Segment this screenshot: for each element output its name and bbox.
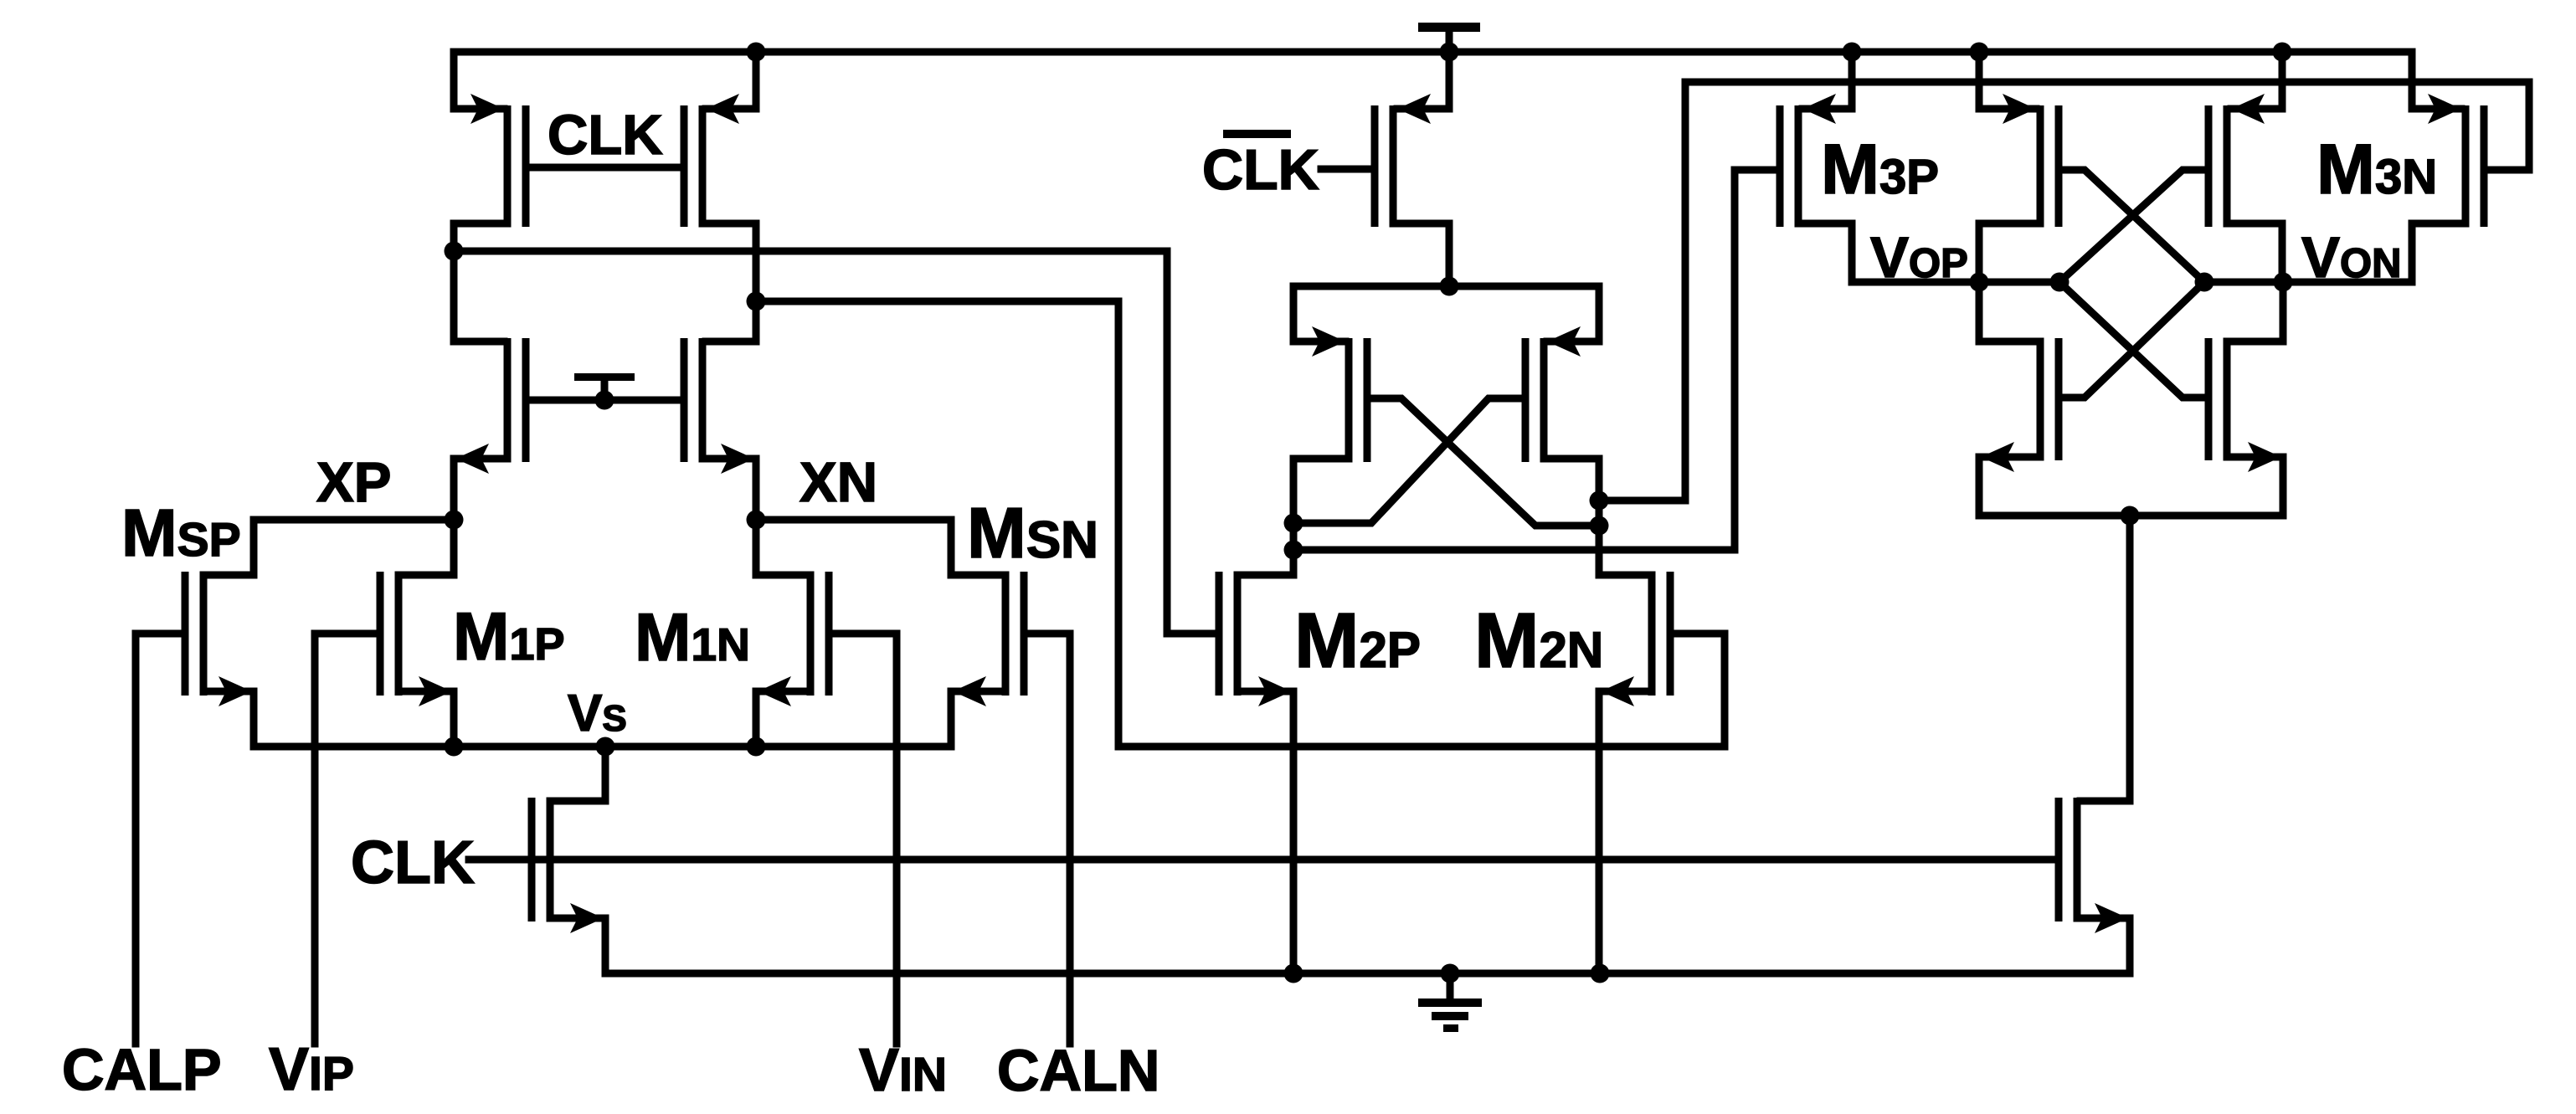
junction on VDD rail (CLKB PMOS source) bbox=[1440, 43, 1459, 62]
node VOP wire bbox=[1852, 279, 2059, 286]
transistor M2P bbox=[1234, 572, 1242, 696]
wire latch tail bus bbox=[1979, 512, 2283, 520]
junction on VDD rail (latch right PMOS source) bbox=[2273, 43, 2292, 62]
svg-text:VON: VON bbox=[2301, 225, 2402, 290]
junction mid-right drain / cross bbox=[1590, 516, 1609, 536]
wire CALN input line bbox=[1067, 634, 1074, 1044]
transistor left pass device bbox=[504, 338, 512, 462]
wire row-2 gate link bbox=[526, 397, 684, 404]
svg-text:M2N: M2N bbox=[1474, 597, 1603, 684]
svg-text:VS: VS bbox=[568, 685, 627, 742]
transistor MSP bbox=[182, 572, 189, 696]
power rail VDD bbox=[454, 49, 2412, 56]
transistor M2N bbox=[1648, 572, 1656, 696]
transistor latch right NMOS bbox=[2224, 338, 2231, 460]
svg-text:CLK: CLK bbox=[351, 829, 475, 896]
wire CLK clock line bbox=[469, 856, 2054, 864]
svg-text:CALP: CALP bbox=[62, 1037, 222, 1102]
transistor MSN bbox=[1002, 572, 1010, 696]
svg-text:MSN: MSN bbox=[967, 494, 1098, 573]
VON junction right bbox=[2274, 273, 2293, 292]
junction mid-left drain / bus A bbox=[1284, 541, 1303, 560]
ground junction M2N bbox=[1591, 964, 1610, 983]
svg-text:VIN: VIN bbox=[859, 1037, 947, 1104]
latch tail junction bbox=[2121, 506, 2140, 526]
svg-text:MSP: MSP bbox=[121, 495, 241, 570]
svg-text:CALN: CALN bbox=[997, 1038, 1159, 1103]
svg-text:VOP: VOP bbox=[1870, 225, 1968, 290]
junction mid-right drain / bus B bbox=[1590, 491, 1609, 511]
VS junction M1N bbox=[747, 737, 766, 757]
wire bus A (first latch output to M3P gate) bbox=[1293, 170, 1776, 550]
ground junction M2P bbox=[1284, 964, 1303, 983]
node XP wire bbox=[254, 516, 454, 524]
transistor latch left PMOS bbox=[2037, 105, 2044, 227]
node XP junction bbox=[445, 511, 464, 530]
svg-text:CLK: CLK bbox=[548, 104, 663, 167]
VS junction M1P bbox=[445, 737, 464, 757]
node A wire (left internal node to M2P gate) bbox=[454, 251, 1217, 634]
transistor M1N bbox=[807, 572, 815, 696]
transistor right pass device bbox=[699, 338, 707, 462]
transistor mid-left PMOS bbox=[1345, 338, 1353, 462]
junction CLKB drain on mid bus bbox=[1440, 277, 1459, 296]
ground symbol bbox=[1447, 973, 1454, 1000]
svg-text:M2P: M2P bbox=[1294, 597, 1421, 684]
wire mid-right gate cross link bbox=[1293, 398, 1525, 523]
svg-text:CLK: CLK bbox=[1202, 138, 1319, 202]
wire mid-left gate cross link bbox=[1367, 398, 1599, 526]
transistor left CLK PMOS bbox=[504, 105, 512, 227]
transistor M1P bbox=[377, 572, 384, 696]
node A junction bbox=[445, 242, 464, 261]
junction on VDD rail (M3P source) bbox=[1843, 43, 1862, 62]
wire CLK pair gate link bbox=[526, 164, 684, 172]
transistor mid-right PMOS bbox=[1540, 338, 1548, 462]
transistor latch left NMOS bbox=[2037, 338, 2044, 460]
transistor M3P bbox=[1795, 105, 1802, 227]
node XN wire bbox=[756, 516, 951, 524]
transistor right tail NMOS bbox=[2055, 798, 2063, 921]
svg-text:M1N: M1N bbox=[635, 600, 750, 675]
svg-text:M3N: M3N bbox=[2316, 130, 2437, 208]
junction on VDD rail (latch left PMOS source) bbox=[1970, 43, 1989, 62]
wire VIP input line bbox=[311, 634, 319, 1044]
transistor latch right PMOS bbox=[2224, 105, 2231, 227]
node VS wire bbox=[254, 743, 951, 751]
VDD supply symbol bbox=[1418, 23, 1480, 32]
VON junction cross bbox=[2195, 273, 2214, 292]
node B wire (right internal node to M2N gate) bbox=[756, 301, 1725, 747]
svg-text:M3P: M3P bbox=[1821, 130, 1939, 208]
svg-text:M1P: M1P bbox=[453, 599, 565, 675]
bulk tie symbol on row-2 gates bbox=[601, 380, 609, 400]
svg-text:XN: XN bbox=[800, 451, 877, 514]
ground junction symbol bbox=[1441, 964, 1460, 983]
transistor left tail NMOS bbox=[528, 798, 536, 921]
transistor right CLK PMOS bbox=[699, 105, 707, 227]
wire ground line bbox=[605, 970, 2130, 978]
transistor M3N bbox=[2462, 105, 2470, 227]
node B junction bbox=[747, 292, 766, 311]
row-2 gate junction bbox=[595, 391, 614, 410]
node XN junction bbox=[747, 511, 766, 530]
node VON wire bbox=[2204, 279, 2412, 286]
transistor CLKB PMOS bbox=[1390, 105, 1397, 227]
VOP junction cross bbox=[2050, 273, 2070, 292]
wire bus B (first latch output to M3N gate) bbox=[1599, 82, 2529, 501]
junction mid-left drain / cross bbox=[1284, 514, 1303, 533]
VS junction tail bbox=[596, 737, 615, 757]
wire mid source bus bbox=[1293, 283, 1599, 290]
junction on VDD rail (right clock PMOS source) bbox=[747, 43, 766, 62]
svg-text:XP: XP bbox=[316, 451, 391, 514]
VOP junction left bbox=[1970, 273, 1989, 292]
wire VIN input line bbox=[893, 634, 901, 1044]
wire CALP input line bbox=[132, 634, 140, 1044]
